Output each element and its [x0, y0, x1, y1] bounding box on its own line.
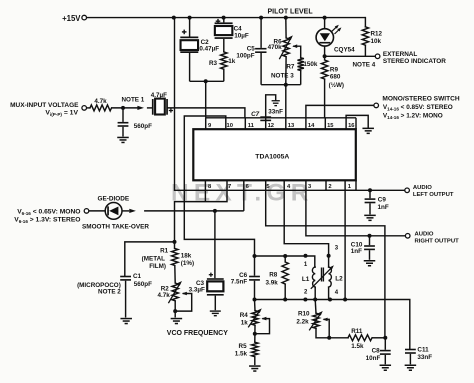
label transformer pin 1	[304, 262, 308, 268]
svg-text:R1: R1	[160, 247, 169, 254]
capacitor 560pF input	[118, 122, 129, 127]
svg-text:C5: C5	[247, 45, 256, 52]
wire LED top lead	[324, 18, 326, 29]
wire rail drop to IC pin-row	[175, 18, 206, 191]
arrow mux direction	[137, 106, 144, 110]
wire LED bottom lead	[324, 46, 326, 60]
wire C4 top lead	[223, 18, 225, 23]
wire mux to arrow	[112, 107, 138, 109]
wire R6 wiper to R7	[292, 44, 301, 57]
potentiometer R2	[168, 281, 182, 303]
label R1 value	[181, 253, 194, 267]
wire C8 lead	[384, 338, 386, 350]
label C11	[417, 347, 432, 362]
label R6	[274, 38, 283, 45]
label 560pF input	[134, 123, 152, 130]
label transformer pin 3	[335, 245, 339, 251]
wire C9 to ground	[369, 203, 371, 214]
svg-text:MONO/STEREO SWITCH: MONO/STEREO SWITCH	[382, 96, 460, 103]
resistor R5	[252, 342, 258, 357]
junction dot C9 tap	[368, 188, 372, 192]
svg-text:1k: 1k	[241, 319, 249, 326]
resistor 4.7k mux	[90, 105, 112, 111]
diode GE	[105, 203, 122, 220]
inductor L1	[312, 267, 315, 300]
label MICROPOCO	[77, 282, 121, 289]
wire C1 feed	[125, 242, 175, 276]
junction dots node-256	[253, 254, 308, 258]
label C5 value	[236, 53, 254, 60]
wire terminal to diode	[89, 210, 105, 212]
wire pin 14 to switch	[306, 105, 374, 117]
wire +15V rail	[87, 17, 366, 19]
svg-text:12: 12	[268, 123, 274, 129]
IC top pin numbers 9-16	[208, 123, 355, 129]
terminal AUDIO RIGHT OUTPUT	[405, 234, 410, 239]
wire mux gap segment	[147, 107, 152, 109]
resistor R11	[348, 335, 372, 341]
wire audio left	[325, 189, 405, 191]
wire R7 bottom lead	[300, 71, 302, 85]
svg-text:AUDIO: AUDIO	[413, 185, 432, 191]
svg-text:11: 11	[248, 123, 255, 129]
svg-text:10µF: 10µF	[234, 32, 249, 39]
node PILOT LEVEL label	[268, 8, 314, 15]
label C1 value	[134, 281, 152, 288]
svg-text:2.2k: 2.2k	[296, 319, 309, 326]
transformer core	[322, 268, 324, 282]
label R2 value	[158, 292, 171, 299]
label R3	[209, 60, 218, 67]
wire C7 to ground	[266, 95, 276, 117]
wire R11 right lead	[372, 337, 385, 339]
node +15V label	[62, 14, 81, 23]
svg-text:L1: L1	[302, 276, 310, 283]
label R2	[161, 286, 170, 293]
label MONO/STEREO SWITCH	[382, 96, 460, 103]
junction dot C10 tap	[368, 234, 372, 238]
junction dot R10 wiper	[327, 336, 331, 340]
ground R2	[171, 318, 183, 325]
label SMOOTH TAKE-OVER	[82, 223, 149, 230]
wire C5 bottom lead	[260, 53, 262, 85]
wire C2/R3 bottom node	[190, 80, 224, 82]
wire node-256 horizontal	[255, 256, 315, 267]
label C4 value	[234, 26, 249, 40]
potentiometer R6	[279, 35, 293, 59]
svg-text:RIGHT OUTPUT: RIGHT OUTPUT	[415, 239, 460, 245]
wire C2 top lead	[189, 18, 191, 37]
label AUDIO RIGHT OUTPUT	[415, 232, 460, 245]
capacitor C4	[215, 19, 233, 39]
label V6-16 stereo	[14, 216, 80, 223]
ground C8	[380, 365, 392, 372]
wire C2 bottom lead	[189, 53, 191, 81]
svg-text:TDA1005A: TDA1005A	[255, 154, 289, 161]
svg-text:470k: 470k	[268, 44, 283, 51]
wire R2 bottom lead	[174, 301, 176, 318]
wire pilot bottom node	[261, 84, 301, 86]
wire pin 4 to L2	[284, 190, 328, 267]
capacitor C6	[249, 276, 260, 281]
svg-text:(METAL: (METAL	[142, 255, 165, 262]
svg-text:10nF: 10nF	[366, 355, 381, 362]
label R6 value	[268, 44, 283, 51]
wire C10 lead	[369, 236, 371, 245]
wire pin 1 drop	[344, 190, 346, 299]
svg-text:4.7k: 4.7k	[158, 292, 171, 299]
wire C4-R3 lead	[223, 39, 225, 52]
wire C5 top lead	[260, 18, 262, 48]
wire C6 column below bus	[254, 300, 257, 311]
junction dot pilot node	[284, 83, 288, 87]
label R8	[266, 271, 279, 286]
svg-text:33nF: 33nF	[268, 109, 283, 116]
watermark NEXT.GR	[171, 179, 314, 206]
wire stereo indicator	[325, 55, 376, 57]
wire pin 6 stub	[243, 190, 245, 211]
svg-text:C8: C8	[372, 347, 381, 354]
junction dot LED bottom	[323, 54, 327, 58]
wire 560pF lead	[122, 108, 124, 122]
potentiometer R4	[248, 308, 262, 327]
wire pin7/pin8 link	[175, 190, 228, 248]
label R7 value	[303, 61, 318, 68]
IC top pin boxes	[206, 118, 356, 129]
wire C3 top lead	[214, 211, 216, 278]
potentiometer R10	[309, 311, 323, 330]
svg-text:(½W): (½W)	[329, 81, 344, 89]
junction dots bottom bus	[253, 298, 348, 302]
label C3 value	[189, 286, 205, 293]
svg-text:AUDIO: AUDIO	[415, 232, 434, 238]
svg-text:10k: 10k	[371, 38, 382, 45]
svg-text:150k: 150k	[303, 61, 318, 68]
svg-text:13: 13	[288, 123, 295, 129]
label NOTE 4	[353, 62, 376, 69]
wire R2 wiper loop	[175, 292, 192, 311]
label R11	[351, 328, 364, 350]
label C8	[366, 347, 381, 362]
label 4.7uF	[151, 92, 167, 99]
label C6	[231, 272, 248, 286]
wire diode to arrow	[122, 210, 129, 212]
terminal +15V	[82, 15, 87, 20]
label L1	[302, 276, 310, 283]
wire R12 bottom lead	[364, 45, 366, 56]
svg-text:R11: R11	[351, 328, 363, 335]
ground R5	[249, 365, 260, 372]
capacitor 4.7uF mux	[152, 99, 173, 115]
terminal EXTERNAL STEREO INDICATOR	[375, 54, 380, 59]
svg-text:7: 7	[228, 184, 231, 190]
label NOTE 1	[122, 96, 145, 103]
wire mux cap to pin 11	[168, 108, 245, 118]
resistor R3	[221, 52, 227, 69]
wire R12 top lead	[364, 18, 366, 27]
label R3 value	[228, 58, 236, 65]
capacitor C11	[405, 349, 416, 354]
label 4.7k mux	[94, 98, 107, 105]
wire R9 bottom / pin 15 feed	[324, 79, 326, 118]
label EXTERNAL STEREO INDICATOR	[383, 51, 446, 65]
label V14-16 stereo	[383, 104, 453, 111]
svg-text:FILM): FILM)	[149, 263, 166, 270]
wire C8 to ground	[384, 355, 386, 364]
svg-text:L2: L2	[335, 276, 343, 283]
capacitor C3	[207, 273, 224, 296]
label AUDIO LEFT OUTPUT	[413, 185, 454, 198]
wire R1-R2 link	[174, 266, 176, 284]
label R10	[296, 310, 310, 325]
wire C11 to ground	[409, 354, 411, 365]
label V14-16 mono	[383, 113, 443, 120]
svg-text:560pF: 560pF	[134, 123, 152, 130]
svg-text:R12: R12	[371, 31, 383, 38]
svg-text:SMOOTH TAKE-OVER: SMOOTH TAKE-OVER	[82, 223, 149, 230]
junction dot C8 tap	[383, 336, 387, 340]
svg-text:C1: C1	[133, 273, 142, 280]
label VCO FREQUENCY	[167, 330, 228, 337]
svg-text:+15V: +15V	[62, 14, 81, 23]
svg-text:GE-DIODE: GE-DIODE	[98, 195, 130, 202]
label R9	[329, 67, 344, 89]
resistor R7	[298, 58, 304, 71]
capacitor C9	[365, 198, 376, 203]
svg-text:VCO FREQUENCY: VCO FREQUENCY	[167, 330, 228, 337]
LED CQY54	[316, 25, 341, 46]
op-amp U1 TDA1005A body	[193, 129, 355, 180]
svg-text:1.5k: 1.5k	[235, 350, 248, 357]
wire R6 bottom lead	[285, 57, 287, 85]
junction dot C2/R3 node	[204, 79, 208, 83]
ground 560pF	[117, 137, 129, 144]
wire pin 8 stub	[204, 190, 206, 201]
label C2 value	[199, 39, 219, 52]
svg-text:C7: C7	[251, 111, 260, 118]
resistor R8	[282, 262, 288, 284]
svg-text:0.47µF: 0.47µF	[199, 46, 219, 53]
capacitor C1	[120, 276, 131, 281]
wire pin 5 net	[266, 190, 385, 337]
junction dot C3 tap	[213, 209, 217, 213]
IC bottom pin boxes	[205, 180, 356, 190]
ground C11	[405, 365, 417, 372]
wire 560pF to ground	[122, 127, 124, 137]
svg-text:NOTE 2: NOTE 2	[98, 289, 121, 296]
svg-text:100pF: 100pF	[236, 53, 254, 60]
label L2	[335, 276, 343, 283]
ground C1	[120, 318, 132, 325]
svg-text:(1%): (1%)	[181, 260, 194, 267]
svg-text:2: 2	[328, 184, 331, 190]
svg-text:680: 680	[330, 74, 341, 81]
svg-text:R8: R8	[269, 271, 278, 278]
label R12	[371, 31, 383, 46]
label MUX-INPUT VOLTAGE	[10, 102, 79, 109]
svg-text:STEREO INDICATOR: STEREO INDICATOR	[383, 58, 446, 65]
terminal MUX input	[82, 106, 87, 111]
wire pin 10 feed	[184, 116, 254, 256]
label Vi(P-P)	[45, 110, 78, 117]
label R4	[240, 312, 249, 326]
label C7 value	[268, 109, 283, 116]
junction dot R2 bottom	[173, 309, 177, 313]
label transformer pin 2	[304, 290, 308, 296]
ground C9	[364, 215, 376, 222]
wire R10 wiper loop	[323, 318, 330, 338]
wire diode line to pin 6	[144, 210, 244, 212]
svg-text:1nF: 1nF	[351, 248, 362, 255]
svg-text:560pF: 560pF	[134, 281, 152, 288]
resistor R12	[362, 27, 368, 45]
svg-text:18k: 18k	[181, 253, 192, 260]
label NOTE 3	[271, 72, 294, 79]
wire C6 leads	[254, 256, 256, 300]
label C10	[351, 242, 363, 256]
wire pin 13 feed	[285, 85, 287, 118]
svg-text:4.7k: 4.7k	[94, 98, 107, 105]
wire R8 leads	[284, 256, 286, 300]
junction dot C1 tap	[173, 240, 177, 244]
svg-text:PILOT LEVEL: PILOT LEVEL	[268, 8, 314, 15]
wire pin 16 to ground	[346, 115, 368, 127]
wire C3 to ground	[214, 296, 216, 311]
capacitor C8	[380, 350, 391, 355]
ground pin 16	[362, 128, 374, 135]
svg-text:NOTE 1: NOTE 1	[122, 96, 145, 103]
svg-text:LEFT OUTPUT: LEFT OUTPUT	[413, 192, 454, 198]
wire R10 bottom	[316, 328, 348, 337]
svg-text:15: 15	[327, 123, 334, 129]
svg-text:16: 16	[348, 123, 355, 129]
wire bottom bus	[255, 300, 410, 349]
svg-text:4.7µF: 4.7µF	[151, 92, 167, 99]
capacitor C2	[180, 30, 198, 53]
arrow diode direction	[129, 209, 136, 213]
junction dot L2 top	[327, 254, 331, 258]
label transformer pin 4	[335, 290, 339, 296]
wire mux to R	[87, 107, 91, 109]
svg-text:10: 10	[226, 123, 232, 129]
svg-text:R9: R9	[330, 67, 339, 74]
svg-text:1.5k: 1.5k	[351, 343, 364, 350]
svg-text:7.5nF: 7.5nF	[231, 279, 248, 286]
ground C3	[210, 310, 221, 316]
svg-text:R5: R5	[239, 343, 248, 350]
label TDA1005A	[255, 154, 289, 161]
svg-text:NOTE 4: NOTE 4	[353, 62, 376, 69]
label R7	[286, 64, 295, 71]
svg-text:C9: C9	[378, 197, 387, 204]
svg-text:1nF: 1nF	[378, 204, 389, 211]
label GE-DIODE	[98, 195, 130, 202]
wire R4 wiper loop	[255, 317, 270, 334]
inductor L2	[329, 267, 332, 300]
transformer tuning arrow	[311, 265, 334, 289]
wire R10 top lead	[314, 300, 317, 314]
wire C10 to ground	[369, 250, 371, 260]
svg-text:33nF: 33nF	[417, 354, 432, 361]
IC bottom pin numbers 8-1	[208, 184, 352, 190]
resistor R1	[172, 248, 178, 265]
wire pin 9 feed	[205, 81, 207, 118]
svg-text:CQY54: CQY54	[334, 47, 355, 54]
terminal MONO/STEREO SWITCH	[374, 103, 379, 108]
wire C9 lead	[369, 190, 371, 198]
wire R5 to ground	[254, 357, 256, 365]
wire C1 to ground	[125, 281, 127, 318]
svg-text:EXTERNAL: EXTERNAL	[383, 51, 418, 58]
capacitor C7	[260, 116, 271, 121]
wire R4 to R5	[254, 325, 256, 342]
svg-text:1k: 1k	[228, 58, 236, 65]
label C7	[251, 111, 260, 118]
label V6-16 mono	[17, 209, 80, 216]
svg-text:C11: C11	[417, 347, 429, 354]
label C5	[247, 45, 256, 52]
svg-text:R10: R10	[298, 310, 310, 317]
wire pin 3 audio right	[306, 190, 406, 236]
capacitor C10	[364, 245, 375, 250]
terminal AUDIO LEFT OUTPUT	[405, 188, 410, 193]
junction dot 560pF tap	[121, 106, 125, 110]
svg-text:R4: R4	[240, 312, 249, 319]
label CQY54	[334, 47, 355, 54]
junction dot R4 bottom	[253, 332, 257, 336]
label NOTE 2	[98, 289, 121, 296]
svg-text:3.9k: 3.9k	[266, 279, 279, 286]
svg-text:R7: R7	[286, 64, 295, 71]
wire R3 bottom lead	[223, 69, 225, 81]
svg-text:14: 14	[308, 123, 315, 129]
wire R6 top lead	[285, 18, 287, 38]
svg-text:NOTE 3: NOTE 3	[271, 72, 294, 79]
svg-text:3.3µF: 3.3µF	[189, 286, 205, 293]
junction dots on +15V rail	[172, 16, 327, 20]
terminal smooth take-over	[84, 209, 89, 214]
resistor R9	[321, 60, 327, 79]
svg-text:MUX-INPUT VOLTAGE: MUX-INPUT VOLTAGE	[10, 102, 79, 109]
capacitor C5	[255, 48, 266, 53]
ground C10	[364, 260, 376, 267]
ground C7	[272, 100, 280, 106]
label R5	[235, 343, 248, 357]
label R1	[142, 247, 169, 270]
label C3	[196, 280, 205, 287]
label C1	[133, 273, 142, 280]
svg-text:R3: R3	[209, 60, 218, 67]
label C9	[378, 197, 389, 211]
